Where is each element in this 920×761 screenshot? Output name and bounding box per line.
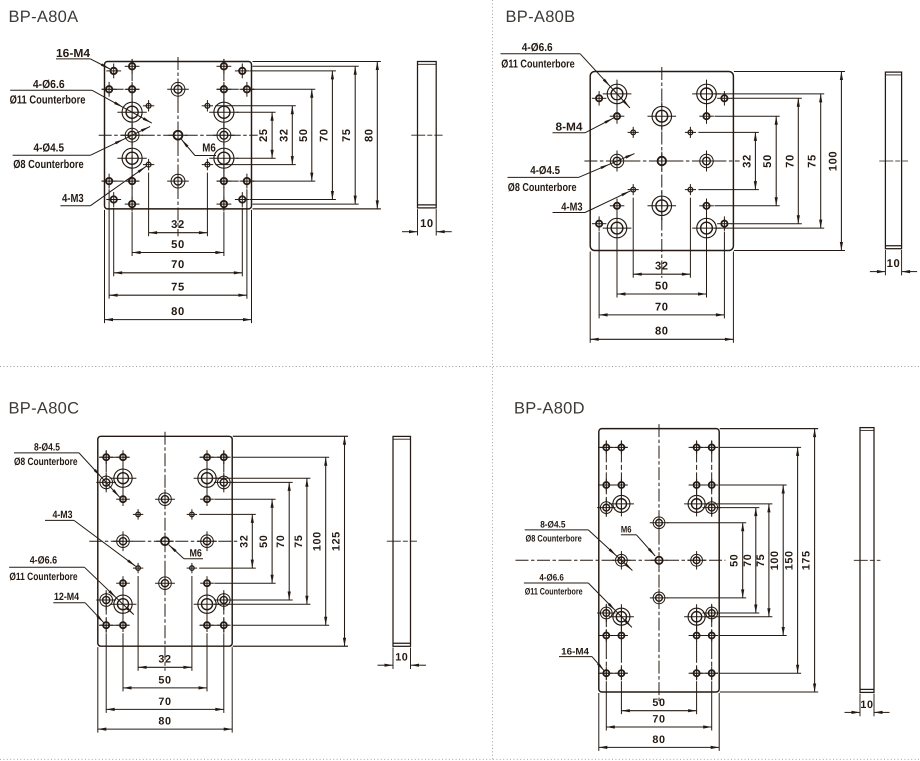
svg-text:4-Ø6.6: 4-Ø6.6 [33,78,65,91]
svg-text:100: 100 [312,531,324,551]
svg-text:100: 100 [769,550,781,570]
svg-text:Ø8 Counterbore: Ø8 Counterbore [14,456,78,468]
svg-text:70: 70 [171,259,185,271]
svg-text:10: 10 [887,258,901,270]
svg-text:4-Ø6.6: 4-Ø6.6 [539,572,563,583]
svg-text:BP-A80C: BP-A80C [9,400,80,418]
svg-text:Ø11 Counterbore: Ø11 Counterbore [525,586,583,597]
svg-text:32: 32 [171,219,185,231]
svg-text:M6: M6 [190,548,202,560]
svg-text:8-M4: 8-M4 [556,122,584,134]
svg-text:8-Ø4.5: 8-Ø4.5 [34,442,60,454]
svg-text:80: 80 [652,734,665,746]
svg-text:125: 125 [331,531,343,551]
svg-text:BP-A80B: BP-A80B [506,8,576,26]
svg-text:M6: M6 [202,141,216,154]
svg-text:50: 50 [298,128,310,142]
svg-text:75: 75 [755,554,767,567]
svg-text:Ø11 Counterbore: Ø11 Counterbore [501,58,574,70]
svg-text:80: 80 [363,128,375,142]
svg-text:25: 25 [258,128,270,142]
svg-text:32: 32 [158,654,171,666]
svg-text:75: 75 [171,282,185,294]
svg-text:70: 70 [784,154,796,168]
svg-text:32: 32 [278,128,290,142]
svg-text:BP-A80D: BP-A80D [514,400,585,418]
svg-text:80: 80 [171,306,185,318]
svg-text:50: 50 [655,280,669,292]
svg-text:8-Ø4.5: 8-Ø4.5 [540,519,565,530]
svg-text:Ø8 Counterbore: Ø8 Counterbore [508,182,577,194]
svg-text:16-M4: 16-M4 [561,646,590,657]
svg-text:50: 50 [258,535,270,548]
svg-text:70: 70 [275,535,287,548]
svg-text:Ø11 Counterbore: Ø11 Counterbore [10,93,86,106]
svg-text:150: 150 [784,550,796,570]
svg-text:4-M3: 4-M3 [561,201,582,213]
svg-text:70: 70 [652,713,665,725]
svg-text:50: 50 [762,154,774,168]
svg-text:175: 175 [801,550,813,570]
svg-text:4-Ø4.5: 4-Ø4.5 [530,165,560,177]
svg-text:BP-A80A: BP-A80A [9,8,79,26]
svg-text:75: 75 [293,535,305,548]
svg-text:Ø8 Counterbore: Ø8 Counterbore [526,533,582,544]
svg-text:75: 75 [341,128,353,142]
svg-text:M6: M6 [621,524,632,535]
svg-text:12-M4: 12-M4 [54,591,79,603]
svg-text:70: 70 [655,301,669,313]
svg-text:70: 70 [318,128,330,142]
svg-text:4-Ø6.6: 4-Ø6.6 [522,42,553,54]
svg-text:50: 50 [158,674,171,686]
svg-text:70: 70 [158,696,171,708]
svg-text:4-Ø6.6: 4-Ø6.6 [30,554,57,566]
svg-text:32: 32 [655,261,669,273]
svg-text:50: 50 [729,554,741,567]
svg-text:Ø8 Counterbore: Ø8 Counterbore [13,158,84,171]
svg-text:80: 80 [158,716,171,728]
svg-text:32: 32 [238,535,250,548]
svg-text:4-Ø4.5: 4-Ø4.5 [34,142,65,155]
svg-text:70: 70 [742,554,754,567]
svg-text:100: 100 [827,151,839,171]
svg-text:32: 32 [741,154,753,168]
svg-text:75: 75 [807,154,819,168]
svg-text:10: 10 [860,699,873,711]
svg-text:50: 50 [171,239,185,251]
svg-text:10: 10 [395,652,408,664]
svg-text:Ø11 Counterbore: Ø11 Counterbore [9,571,77,583]
svg-text:80: 80 [655,326,669,338]
svg-text:4-M3: 4-M3 [53,509,73,521]
svg-text:50: 50 [652,697,665,709]
svg-text:16-M4: 16-M4 [56,47,90,60]
svg-text:4-M3: 4-M3 [62,192,84,205]
svg-text:10: 10 [420,218,434,230]
